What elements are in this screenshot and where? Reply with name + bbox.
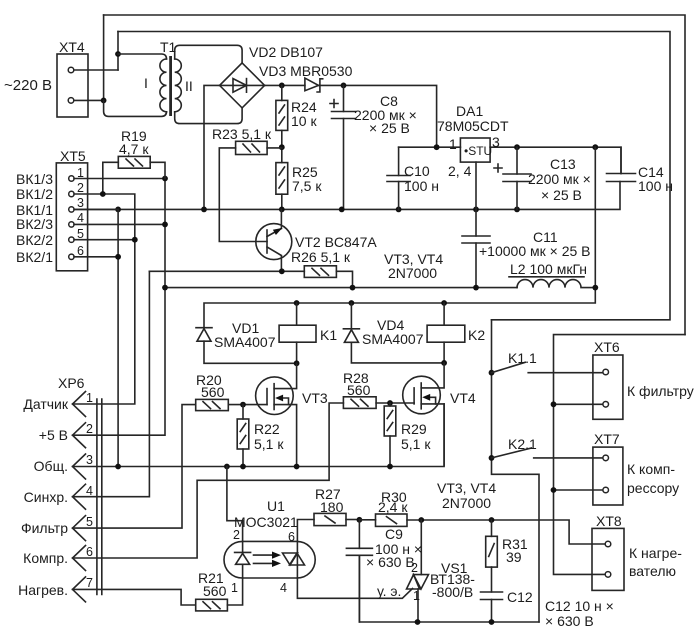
wire C12 bottom lead — [491, 600, 493, 623]
resistor R23 rating marks — [243, 144, 260, 152]
svg-text:ВК1/3: ВК1/3 — [16, 171, 53, 187]
resistor R25 rating marks — [279, 167, 285, 188]
wire XT5 row1 — [74, 178, 165, 180]
svg-text:ВК2/2: ВК2/2 — [16, 232, 53, 248]
bridge VD2 inner line — [220, 84, 265, 86]
svg-text:1: 1 — [449, 136, 457, 152]
node dot +5 C13 top — [514, 144, 520, 150]
mosfet VT3 body arrow line — [280, 398, 289, 405]
wire K2 bottom lead — [443, 342, 445, 363]
node dot triac bottom rail — [415, 619, 421, 625]
resistor R20 rating marks — [203, 402, 220, 409]
resistor R21 box — [196, 599, 228, 611]
svg-text:5: 5 — [86, 515, 93, 529]
svg-text:XP6: XP6 — [58, 375, 85, 391]
wire R28 left to Kompr pin — [73, 403, 344, 558]
svg-text:3: 3 — [77, 196, 84, 210]
svg-text:MOC3021: MOC3021 — [234, 514, 298, 530]
svg-text:560: 560 — [201, 384, 225, 400]
resistor R30 rating mark — [387, 517, 397, 524]
svg-text:Фильтр: Фильтр — [21, 520, 68, 536]
svg-text:1: 1 — [413, 589, 420, 603]
svg-text:~220 В: ~220 В — [4, 77, 52, 94]
wire XT5 row6 — [74, 256, 118, 258]
svg-text:× 25 В: × 25 В — [541, 187, 582, 203]
resistor R26 box — [304, 266, 336, 278]
wire mains line B left drop to XT4 pin1 wire — [117, 32, 119, 71]
resistor R21 rating marks — [203, 602, 220, 609]
connector XT8 box — [592, 528, 624, 590]
node dot XT7 pin2 junction — [551, 487, 557, 493]
svg-text:ВК2/3: ВК2/3 — [16, 216, 53, 232]
svg-text:+10000 мк × 25 В: +10000 мк × 25 В — [479, 243, 591, 259]
resistor R24 rating marks — [279, 105, 285, 125]
node dot R29 top — [387, 400, 393, 406]
resistor R24 leads — [281, 85, 283, 147]
mosfet VT4 drain stub — [421, 363, 444, 388]
mosfet VT4 body arrow line — [427, 397, 436, 404]
C13 polarity plus — [494, 164, 502, 172]
svg-text:XT6: XT6 — [594, 339, 620, 355]
wire bridge positive to VD3 — [265, 84, 305, 86]
wire branch XT6 pin2 — [554, 403, 603, 405]
node dot row6 bus — [115, 254, 121, 260]
connector XP6 pin1 arrow — [73, 392, 86, 417]
svg-text:Синхр.: Синхр. — [24, 489, 68, 505]
wire R22 leads — [242, 405, 244, 467]
filtered +5 rail — [165, 287, 517, 289]
svg-text:4: 4 — [77, 211, 84, 225]
diode VD4 triangle — [344, 330, 358, 343]
svg-text:2N7000: 2N7000 — [442, 495, 491, 511]
node dot C9 top — [357, 517, 363, 523]
mosfet VT4 gate bar — [413, 388, 415, 404]
svg-text:2200 мк ×: 2200 мк × — [528, 171, 591, 187]
mosfet VT3 source stub — [274, 405, 297, 467]
svg-text:6: 6 — [86, 545, 93, 559]
svg-text:II: II — [185, 78, 193, 94]
capacitor C11 leads — [475, 209, 477, 287]
diode VD4 bar — [343, 328, 359, 330]
switch K2.1 blade — [492, 448, 532, 458]
connector XP6 pin2 arrow — [73, 423, 86, 448]
switch K2.1 pivot — [489, 455, 495, 461]
relay K1 coil box — [279, 325, 316, 342]
diode VD1 triangle — [197, 329, 211, 342]
wire XP6 pin7 to R21 — [73, 589, 196, 605]
mosfet VT3 body arrow head — [275, 395, 283, 402]
node dot relay supply K2 — [441, 300, 447, 306]
wire VD4 leads — [351, 303, 444, 363]
wire U1 pin4 to triac gate — [297, 578, 412, 598]
node dot gnd bridge-neg — [201, 207, 207, 213]
svg-text:XT4: XT4 — [59, 39, 85, 55]
wire XT5 row4 — [74, 223, 165, 225]
svg-text:C12: C12 — [507, 589, 533, 605]
resistor R29 rating marks — [387, 411, 393, 431]
svg-text:C13: C13 — [550, 156, 576, 172]
capacitor C14 plates — [607, 174, 636, 182]
triac VS1 top lead — [420, 520, 422, 575]
node dot C12 bottom rail — [489, 619, 495, 625]
capacitor C11 plates — [462, 236, 490, 243]
triac VS1 triangle down — [414, 575, 429, 589]
wire VT3 gate line — [228, 404, 267, 406]
resistor R26 rating marks — [312, 268, 329, 275]
node dot L2 right — [592, 285, 598, 291]
connector XP6 pin7 arrow — [73, 577, 86, 602]
svg-text:100 н: 100 н — [638, 178, 673, 194]
transistor VT2 collector — [267, 247, 281, 271]
svg-text:K1: K1 — [320, 327, 337, 343]
svg-text:VT4: VT4 — [450, 390, 476, 406]
resistor R25 box — [276, 163, 288, 195]
svg-text:100 н: 100 н — [404, 178, 439, 194]
svg-text:Общ.: Общ. — [34, 458, 68, 474]
connector XP6 pin6 arrow — [73, 546, 86, 571]
common rail (Obshch.) — [73, 404, 445, 467]
resistor R19 rating marks — [126, 159, 143, 166]
svg-text:Датчик: Датчик — [23, 396, 68, 412]
mosfet VT3 channel bar — [273, 384, 275, 410]
transistor VT2 emitter — [267, 209, 281, 236]
wire XT5 row5 — [74, 239, 135, 241]
mosfet VT3 circle — [256, 377, 294, 415]
svg-text:× 630 В: × 630 В — [545, 613, 594, 629]
svg-text:C12 10 н ×: C12 10 н × — [545, 598, 614, 614]
mosfet VT4 circle — [403, 376, 441, 414]
svg-text:1: 1 — [231, 581, 238, 595]
capacitor C13 leads — [516, 147, 518, 209]
transformer T1 secondary winding — [175, 59, 182, 112]
svg-text:2: 2 — [77, 181, 84, 195]
ground rail (common) — [74, 182, 620, 210]
wire bus XT5 pins3+6 to common — [117, 209, 119, 466]
svg-text:180: 180 — [320, 499, 344, 515]
wire bottom rail to C9 — [359, 555, 539, 622]
wire relay contacts common vertical — [492, 320, 540, 622]
svg-text:78M05CDT: 78M05CDT — [437, 118, 509, 134]
svg-text:1: 1 — [86, 391, 93, 405]
svg-text:× 25 В: × 25 В — [369, 120, 410, 136]
wire R30 right to XT8 pin1 — [407, 520, 605, 544]
inductor L2 — [517, 280, 595, 288]
switch K1.1 fixed contact to XT6 pin1 — [528, 372, 603, 374]
svg-text:Нагрев.: Нагрев. — [18, 582, 68, 598]
connector XT6 box — [593, 355, 623, 419]
svg-text:XT8: XT8 — [596, 513, 622, 529]
node dot R24 top — [279, 83, 285, 89]
svg-text:I: I — [144, 75, 148, 91]
svg-text:5: 5 — [77, 227, 84, 241]
node dot common VT3 source — [294, 464, 300, 470]
node dot C8 top — [341, 83, 347, 89]
node dot triac top — [418, 517, 424, 523]
connector XT4 box — [57, 54, 88, 117]
mosfet VT4 channel bar — [420, 383, 422, 409]
svg-text:R29: R29 — [401, 421, 427, 437]
capacitor C9 plates — [346, 548, 372, 555]
U1 LED triangle — [236, 553, 250, 564]
svg-text:7,5 к: 7,5 к — [292, 178, 322, 194]
wire K1 bottom lead — [296, 342, 298, 363]
capacitor C10 leads — [398, 147, 400, 209]
U1 phototriac triangle up — [290, 553, 305, 565]
wire bridge negative to ground rail — [204, 85, 220, 209]
node dot row1 R19 — [162, 176, 168, 182]
connector XP6 pin3 arrow — [73, 454, 86, 479]
pin circle XT5-5 — [69, 237, 74, 242]
capacitor C8 plates — [332, 112, 356, 119]
pin circle XT7-2 — [603, 487, 609, 493]
mosfet VT3 drain stub — [274, 363, 297, 388]
svg-text:K1.1: K1.1 — [508, 350, 537, 366]
wire sync line — [149, 270, 304, 272]
resistor R30 box — [376, 514, 408, 526]
capacitor C14 leads — [620, 147, 622, 173]
node dot common U1 pin2 — [224, 464, 230, 470]
bridge VD2 inner diode — [233, 79, 247, 93]
node dot relay supply K1 — [294, 300, 300, 306]
node dot row4 bus — [162, 222, 168, 228]
svg-text:+5 В: +5 В — [39, 427, 68, 443]
node dot row5 bus — [132, 237, 138, 243]
svg-text:Компр.: Компр. — [23, 550, 68, 566]
resistor R25 leads — [281, 147, 283, 209]
svg-text:C10: C10 — [404, 163, 430, 179]
svg-text:XT7: XT7 — [594, 431, 620, 447]
svg-text:L2 100 мкГн: L2 100 мкГн — [510, 261, 587, 277]
svg-text:3: 3 — [86, 453, 93, 467]
C8 polarity plus — [330, 100, 338, 108]
wire +5 downfeed to relay supply — [204, 147, 595, 328]
transformer T1 secondary bottom lead — [175, 108, 242, 124]
pin circle XT5-1 — [69, 176, 74, 181]
regulator DA1 box — [460, 138, 490, 162]
resistor R27 rating mark — [325, 516, 335, 523]
pin circle XT4-1 — [68, 67, 74, 73]
svg-text:2,4 к: 2,4 к — [378, 499, 408, 515]
transistor VT2 base bar — [266, 230, 268, 253]
svg-text:1: 1 — [77, 166, 84, 180]
resistor R28 box — [343, 397, 376, 409]
pin circle XT4-2 — [68, 98, 74, 104]
wire R29 leads — [389, 403, 391, 465]
pin circle XT5-2 — [69, 191, 74, 196]
switch K2.1 fixed contact to XT7 pin1 — [534, 457, 603, 459]
wire K1 top lead — [296, 303, 298, 325]
node dot gnd C8 — [339, 207, 345, 213]
wire XT5 row3 stub — [74, 208, 118, 210]
svg-text:2: 2 — [233, 528, 240, 542]
svg-text:560: 560 — [347, 382, 371, 398]
transformer T1 core — [169, 56, 172, 116]
L2 label underline — [509, 276, 584, 278]
wire DA1 ground pins 2,4 — [475, 162, 477, 209]
svg-text:7: 7 — [86, 576, 93, 590]
connector XP6 pin4 arrow — [73, 484, 86, 509]
pin circle XT5-6 — [69, 254, 74, 259]
wire DA1 input node horizontal — [399, 146, 461, 148]
pin circle XT8-2 — [605, 572, 611, 578]
wire mains line A top — [104, 15, 685, 335]
svg-text:6: 6 — [77, 244, 84, 258]
svg-text:XT5: XT5 — [60, 148, 86, 164]
svg-text:39: 39 — [506, 549, 522, 565]
svg-text:2: 2 — [86, 422, 93, 436]
node dot +5F R26 — [350, 285, 356, 291]
capacitor C12 plates — [481, 592, 503, 600]
wire mains line B top — [118, 32, 670, 320]
node dot gnd DA1 — [473, 207, 479, 213]
node dot common R29 — [387, 464, 393, 470]
svg-text:560: 560 — [203, 583, 227, 599]
node dot +5 downfeed — [592, 144, 598, 150]
U1 light arrow 2 — [254, 562, 275, 564]
wire R23 left lead to VT2 base — [219, 148, 267, 242]
svg-text:SMA4007: SMA4007 — [362, 331, 424, 347]
svg-text:R26 5,1 к: R26 5,1 к — [291, 249, 351, 265]
node dot relay supply VD4 — [349, 300, 355, 306]
mosfet VT3 gate bar — [266, 389, 268, 405]
pin circle XT6-1 — [603, 369, 609, 375]
resistor R20 box — [196, 399, 229, 410]
svg-text:C9: C9 — [385, 526, 403, 542]
U1 light arrow 1 head — [272, 552, 281, 559]
resistor R19 box — [118, 156, 150, 168]
resistor R27 box — [314, 513, 346, 525]
node dot primary top branch — [115, 51, 121, 57]
pin circle XT8-1 — [605, 541, 611, 547]
resistor R28 rating marks — [351, 399, 368, 406]
capacitor C8 leads — [343, 85, 345, 209]
svg-text:R22: R22 — [254, 421, 280, 437]
node dot K2 bottom VT4 drain — [441, 360, 447, 366]
wire R27 right lead — [346, 519, 359, 521]
transistor VT2 emitter arrow — [273, 228, 283, 235]
svg-text:K2: K2 — [468, 327, 485, 343]
wire VT4 gate line — [376, 402, 414, 404]
node dot R31 top — [489, 517, 495, 523]
svg-text:-800/В: -800/В — [432, 584, 473, 600]
U1 phototriac vertical — [296, 541, 298, 578]
mosfet VT4 source stub — [421, 404, 444, 465]
capacitor C10 plates — [387, 176, 410, 182]
svg-text:U1: U1 — [267, 498, 285, 514]
relay K2 coil box — [427, 325, 465, 342]
svg-text:4: 4 — [86, 484, 93, 498]
svg-text:SMA4007: SMA4007 — [214, 334, 276, 350]
U1 LED cathode bar — [235, 551, 251, 553]
node dot XT6 pin2 junction — [551, 401, 557, 407]
svg-text:VD2 DB107: VD2 DB107 — [249, 44, 323, 60]
node dot VT2 collector sync — [279, 268, 285, 274]
node dot DA1 input junction — [434, 144, 440, 150]
svg-text:2, 4: 2, 4 — [448, 163, 472, 179]
pin circle XT5-3 — [69, 207, 74, 212]
svg-text:2: 2 — [411, 561, 418, 575]
U1 light arrow 2 head — [272, 560, 281, 567]
U1 light arrow 1 — [254, 554, 275, 556]
wire R19 right lead — [150, 162, 165, 178]
connector XT7 box — [593, 447, 623, 505]
pin circle XT6-2 — [603, 402, 609, 408]
node dot common R22 — [240, 464, 246, 470]
wire sync line drop to XP6 pin4 — [73, 271, 150, 496]
svg-text:К комп-: К комп- — [627, 461, 675, 477]
svg-text:10 к: 10 к — [291, 113, 317, 129]
connector XP6 body lines — [97, 399, 102, 595]
wire VD1 anode down and across — [204, 341, 297, 363]
wire R20 left to Filtr pin — [73, 405, 196, 528]
svg-text:4,7 к: 4,7 к — [119, 141, 149, 157]
svg-text:K2.1: K2.1 — [508, 436, 537, 452]
wire branch XT7 pin2 — [554, 489, 603, 491]
svg-text:у. э.: у. э. — [377, 583, 401, 599]
svg-text:ВК1/2: ВК1/2 — [16, 186, 53, 202]
svg-text:T1: T1 — [160, 39, 177, 55]
resistor R31 rating mark — [489, 544, 495, 557]
svg-text:5,1 к: 5,1 к — [254, 436, 284, 452]
wire R31 leads — [491, 520, 493, 592]
svg-text:4: 4 — [280, 581, 287, 595]
node dot gnd C10 — [396, 207, 402, 213]
svg-text:рессору: рессору — [627, 480, 679, 496]
svg-text:3: 3 — [492, 134, 500, 150]
wire mains line A left drop to XT4 pin2 node — [103, 15, 105, 100]
transistor VT2 circle — [256, 224, 292, 260]
bridge VD2 inner diode bar — [246, 79, 248, 93]
diode VD1 bar — [196, 327, 212, 329]
svg-text:6: 6 — [288, 530, 295, 544]
svg-text:VT3: VT3 — [302, 390, 328, 406]
node dot +5F C11 — [473, 285, 479, 291]
optocoupler U1 body — [224, 541, 315, 578]
svg-text:К нагре-: К нагре- — [629, 545, 682, 561]
wire XT5 row2 to bus — [73, 194, 135, 404]
svg-text:2N7000: 2N7000 — [388, 265, 437, 281]
U1 phototriac triangle down — [283, 553, 298, 565]
node dot common XT5 bus — [115, 464, 121, 470]
node dot +5F bus left — [162, 285, 168, 291]
node dot R22 top — [240, 402, 246, 408]
svg-text:VT3, VT4: VT3, VT4 — [437, 480, 496, 496]
node dot gnd R25/VT2 — [279, 207, 285, 213]
node dot XT4 pin2 / mains A — [101, 98, 107, 104]
node dot gnd C13 — [514, 207, 520, 213]
resistor R31 box — [486, 536, 498, 567]
wire R19 left lead — [103, 162, 119, 194]
svg-text:R23 5,1 к: R23 5,1 к — [212, 126, 272, 142]
pin circle XT5-4 — [69, 222, 74, 227]
svg-text:•STU: •STU — [464, 144, 492, 158]
node dot R24/R25/R23 junction — [279, 144, 285, 150]
wire bus XT5 pins1+4 to +5V pin — [73, 179, 166, 436]
bridge rectifier VD2 diamond — [220, 63, 265, 108]
wire R21 right to U1 pin1 — [227, 578, 242, 605]
node dot R19 row2 — [100, 191, 106, 197]
resistor R29 box — [384, 406, 396, 436]
wire U1 pin2 from common — [227, 467, 243, 542]
svg-text:ВК2/1: ВК2/1 — [16, 249, 53, 265]
wire XT4 pin2 to mains node — [74, 99, 104, 101]
triac VS1 bottom lead — [417, 589, 419, 622]
wire XT4 pin1 to transformer — [74, 69, 118, 71]
switch K1.1 pivot — [489, 370, 495, 376]
mosfet VT4 body arrow head — [422, 394, 430, 401]
switch K1.1 blade — [492, 362, 526, 372]
wire C9 top to R30 — [359, 519, 375, 521]
